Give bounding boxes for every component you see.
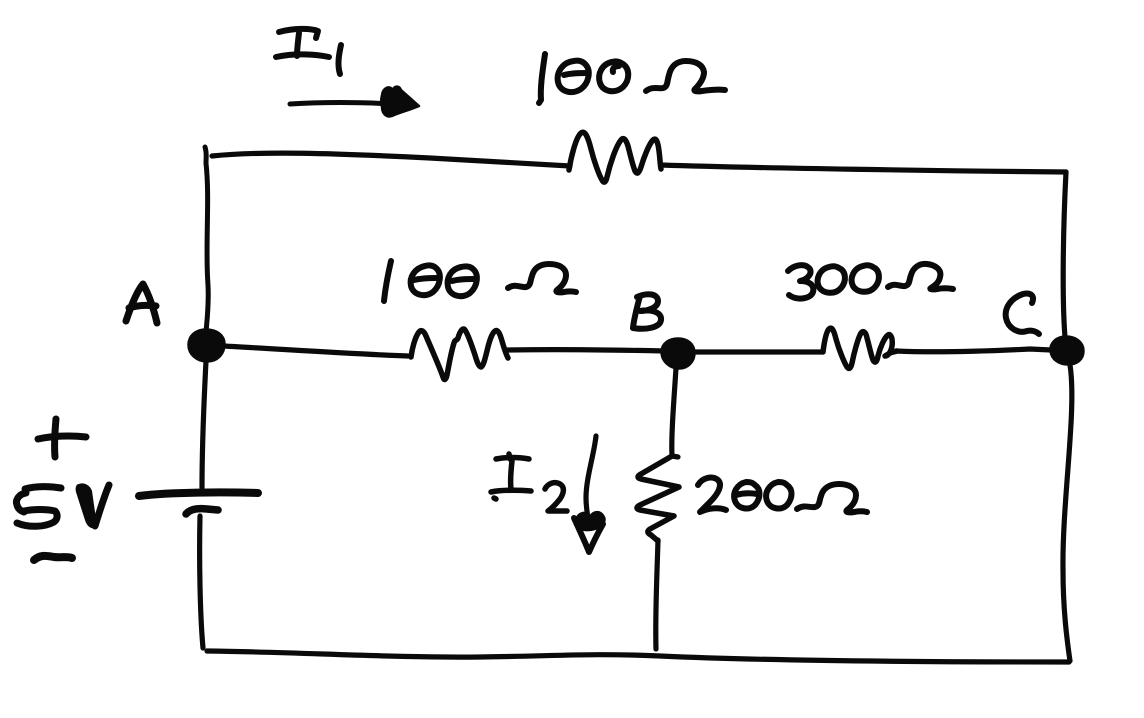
resistor 200 ohm (vertical, B branch)	[637, 456, 679, 541]
wire: left branch, corner down to node A	[206, 163, 208, 332]
value label 300 ohm (B-C branch)	[788, 264, 953, 299]
wire: middle wire, node B to 300-ohm resistor	[693, 349, 822, 354]
node label C	[1006, 293, 1039, 334]
battery polarity label +	[38, 419, 86, 457]
wire: bottom wire, left corner to right corner	[207, 651, 1069, 662]
current arrow I1	[290, 87, 419, 117]
wire: top-left corner tick	[205, 147, 206, 163]
node B (junction dot)	[662, 339, 694, 368]
battery value label 5V	[16, 484, 109, 527]
battery polarity label minus	[34, 556, 72, 560]
current arrow I2	[574, 436, 604, 552]
wire: 200-ohm resistor down to bottom wire	[656, 540, 658, 649]
wire: branch B down to 200-ohm resistor	[672, 368, 678, 457]
value label 200 ohm (B branch)	[698, 478, 867, 513]
value label 100 ohm (top branch)	[539, 54, 725, 103]
resistor 100 ohm (top branch)	[569, 132, 661, 182]
battery 5V negative plate	[186, 509, 218, 514]
current label I2	[491, 454, 567, 511]
wire: middle wire, 300-ohm resistor to node C	[896, 349, 1051, 352]
resistor 100 ohm (middle branch, A-B)	[411, 329, 508, 379]
wire: battery down to bottom-left corner	[200, 516, 203, 648]
wire: right branch, top corner down to node C	[1063, 172, 1066, 337]
node label B	[633, 294, 661, 328]
node C (junction dot)	[1051, 337, 1083, 364]
wire: middle wire, resistor to node B	[506, 350, 665, 351]
wire: left branch, node A down to battery	[202, 361, 206, 488]
wire: top wire, resistor to top-right corner	[661, 165, 1066, 172]
value label 100 ohm (middle branch)	[384, 261, 576, 301]
wire: right branch, node C down to bottom corner	[1063, 365, 1072, 661]
resistor 300 ohm (middle branch, B-C)	[823, 328, 897, 368]
battery 5V positive plate	[139, 492, 258, 496]
current label I1	[276, 29, 341, 74]
node label A	[126, 284, 157, 323]
wire: top wire, corner to 100-ohm resistor	[212, 153, 570, 166]
wire: middle wire, node A to 100-ohm resistor	[223, 346, 408, 356]
node A (junction dot)	[189, 330, 224, 361]
